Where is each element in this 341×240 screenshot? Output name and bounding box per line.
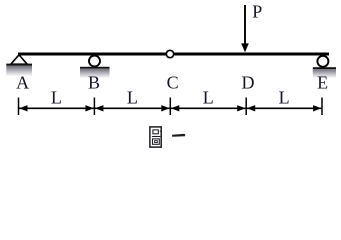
dimension line C-D <box>171 105 246 111</box>
dimension line D-E <box>247 105 322 111</box>
internal hinge C <box>166 50 173 57</box>
dimension line A-B <box>19 105 94 111</box>
load P arrow <box>241 5 249 52</box>
svg-text:D: D <box>242 73 255 93</box>
roller support B <box>80 56 110 79</box>
caption 一 (one) glyph <box>172 134 185 137</box>
svg-text:A: A <box>16 73 29 93</box>
caption 圖 (figure) glyph drawn as strokes <box>150 127 161 147</box>
svg-text:E: E <box>317 73 328 93</box>
dimension ticks <box>19 98 323 116</box>
svg-text:L: L <box>279 88 290 108</box>
pin support A <box>6 55 32 77</box>
beam A-E <box>18 53 329 56</box>
svg-text:L: L <box>203 88 214 108</box>
roller support E <box>313 56 336 78</box>
svg-text:C: C <box>167 73 179 93</box>
svg-text:P: P <box>252 2 262 22</box>
svg-text:L: L <box>127 88 138 108</box>
dimension line B-C <box>95 105 170 111</box>
svg-text:L: L <box>51 88 62 108</box>
svg-text:B: B <box>88 73 100 93</box>
